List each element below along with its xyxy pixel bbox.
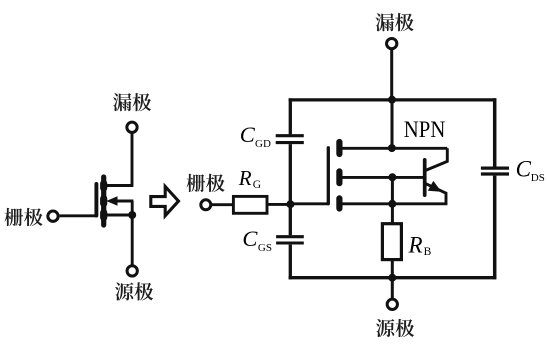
wire source terminal vertical (right) (391, 278, 394, 299)
wire top rail to drain line (391, 100, 394, 149)
label gate terminal (left MOSFET) 栅极 (5, 208, 43, 226)
left rail middle segment (289, 144, 292, 235)
wire R_B to bottom rail (391, 261, 394, 278)
junction dot drain on top rail (388, 96, 396, 104)
junction dot source line (388, 200, 396, 208)
wire source stub (left) (104, 214, 133, 217)
wire MOSFET drain line (right) (341, 147, 447, 150)
MOSFET body stub (left) (113, 200, 133, 203)
label gate terminal (equivalent circuit) 栅极 (187, 174, 225, 192)
wire drain stub (left) (104, 184, 133, 187)
MOSFET channel contact pad top (left) (100, 184, 107, 189)
MOSFET channel bar (left) (101, 177, 106, 225)
transistor NPN base bar (423, 160, 427, 195)
junction dot source on bottom rail (388, 274, 396, 282)
capacitor C_GD (276, 136, 304, 143)
terminal circle source (left) (127, 266, 137, 276)
svg-text:R: R (238, 166, 252, 190)
wire MOSFET source line (right) (341, 202, 447, 205)
arrowhead NPN emitter (428, 181, 442, 192)
MOSFET channel dash middle (right) (336, 171, 342, 183)
wire gate lead (left) (60, 214, 96, 217)
svg-text:GD: GD (255, 138, 271, 150)
MOSFET channel contact pad bottom (left) (100, 213, 107, 218)
wire body-to-source link (left) (131, 201, 134, 215)
terminal circle drain (right) (387, 38, 397, 48)
wire gate node to MOSFET gate bar (right) (290, 202, 328, 205)
MOSFET channel dash top (right) (336, 142, 342, 154)
junction dot source (left) (128, 211, 136, 219)
transistor NPN collector branch (425, 148, 447, 170)
svg-text:C: C (240, 122, 256, 147)
svg-text:GS: GS (258, 242, 272, 254)
label source terminal (equivalent circuit) 源极 (376, 319, 414, 337)
top rail (289, 98, 497, 101)
resistor R_G (233, 196, 267, 213)
wire base node down to R_B (391, 177, 394, 223)
MOSFET channel contact pad middle (left) (100, 199, 107, 204)
terminal circle source (right) (387, 299, 397, 309)
MOSFET gate bar (right) (327, 148, 330, 204)
left rail lower segment (289, 245, 292, 280)
junction dot gate node (286, 200, 294, 208)
MOSFET channel dash bottom (right) (336, 198, 342, 208)
wire MOSFET body/base line (right) (341, 176, 424, 179)
junction dot drain line (388, 144, 396, 152)
label drain terminal (left MOSFET) 漏极 (113, 93, 151, 111)
terminal circle gate (right) (201, 200, 211, 210)
bottom rail (289, 276, 497, 279)
terminal circle drain (left) (127, 122, 137, 132)
svg-text:DS: DS (531, 172, 545, 184)
svg-text:R: R (408, 232, 423, 257)
wire R_G to gate node (268, 203, 292, 206)
arrowhead body diode (left, pointing left) (106, 196, 117, 206)
transistor NPN emitter branch (425, 183, 446, 204)
left rail upper segment (289, 98, 292, 134)
junction dot base line (388, 173, 396, 181)
right rail upper segment (493, 98, 497, 166)
svg-text:C: C (516, 156, 532, 181)
svg-text:G: G (253, 179, 261, 191)
MOSFET gate bar (left) (94, 184, 98, 216)
label drain terminal (equivalent circuit) 漏极 (376, 13, 414, 31)
resistor R_B (382, 224, 401, 260)
terminal circle gate (left) (48, 211, 58, 221)
svg-text:B: B (424, 246, 432, 258)
wire gate terminal to R_G (212, 203, 233, 206)
capacitor C_GS (276, 237, 304, 243)
right rail lower segment (493, 176, 497, 280)
label source terminal (left MOSFET) 源极 (115, 282, 153, 300)
wire drain terminal vertical (right) (390, 49, 393, 99)
capacitor C_DS (481, 168, 509, 174)
wire source vertical (left) (131, 215, 134, 265)
svg-text:C: C (242, 226, 258, 251)
svg-text:NPN: NPN (404, 117, 446, 142)
wire drain vertical (left) (131, 133, 134, 185)
